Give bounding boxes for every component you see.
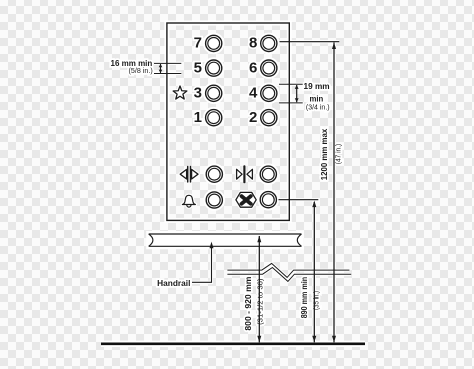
button 4	[261, 85, 277, 101]
svg-text:1: 1	[194, 109, 202, 126]
svg-text:(31-1/2 to 36): (31-1/2 to 36)	[258, 279, 265, 325]
wall break line (zigzag)	[227, 263, 351, 281]
white halo backdrop layer	[101, 23, 365, 344]
reference line from button 8	[280, 41, 340, 43]
button 7	[206, 35, 222, 51]
svg-text:4: 4	[249, 85, 258, 102]
19 mm dimension arrow	[296, 85, 298, 102]
emergency stop icon (hexagon with X)	[236, 192, 256, 207]
16 mm dimension extension lines	[154, 63, 181, 73]
handrail bar	[149, 234, 302, 246]
svg-text:8: 8	[249, 35, 257, 52]
button 5	[206, 60, 222, 76]
svg-text:5: 5	[194, 59, 202, 76]
stop button	[260, 192, 276, 208]
button 1	[206, 110, 222, 126]
door open button	[206, 166, 222, 182]
890 mm dimension line	[313, 202, 315, 342]
svg-text:(47 in.): (47 in.)	[334, 144, 343, 165]
reference line from stop button	[279, 199, 319, 201]
button 8	[261, 35, 277, 51]
floor line	[101, 342, 365, 345]
svg-text:(3/4 in.): (3/4 in.)	[306, 104, 330, 111]
svg-text:16 mm min: 16 mm min	[111, 59, 153, 68]
button 6	[261, 60, 277, 76]
handrail leader line	[192, 248, 212, 283]
button 2	[261, 110, 277, 126]
svg-text:7: 7	[194, 35, 202, 52]
alarm button	[206, 192, 222, 208]
19 mm dimension extension lines	[279, 84, 303, 103]
svg-text:2: 2	[249, 109, 257, 126]
svg-text:Handrail: Handrail	[157, 279, 190, 288]
door close icon	[237, 166, 253, 182]
800-920 mm dimension line	[258, 236, 260, 342]
star symbol (main entry floor)	[173, 86, 187, 99]
svg-text:min: min	[310, 94, 324, 103]
16 mm dimension arrow	[160, 64, 162, 73]
button 3	[206, 85, 222, 101]
svg-text:3: 3	[194, 85, 202, 102]
svg-text:1200 mm max: 1200 mm max	[320, 128, 329, 180]
svg-text:(5/8 in.): (5/8 in.)	[129, 68, 153, 75]
svg-text:800 - 920 mm: 800 - 920 mm	[244, 277, 253, 331]
control panel outline	[167, 23, 289, 220]
alarm bell icon	[182, 195, 195, 204]
door close button	[260, 166, 276, 182]
svg-text:(35 in.): (35 in.)	[314, 291, 321, 310]
door open icon	[180, 167, 198, 182]
svg-text:19 mm: 19 mm	[304, 82, 330, 91]
svg-text:6: 6	[249, 59, 257, 76]
1200 mm dimension line	[333, 43, 335, 343]
svg-text:890 mm min: 890 mm min	[300, 277, 309, 318]
